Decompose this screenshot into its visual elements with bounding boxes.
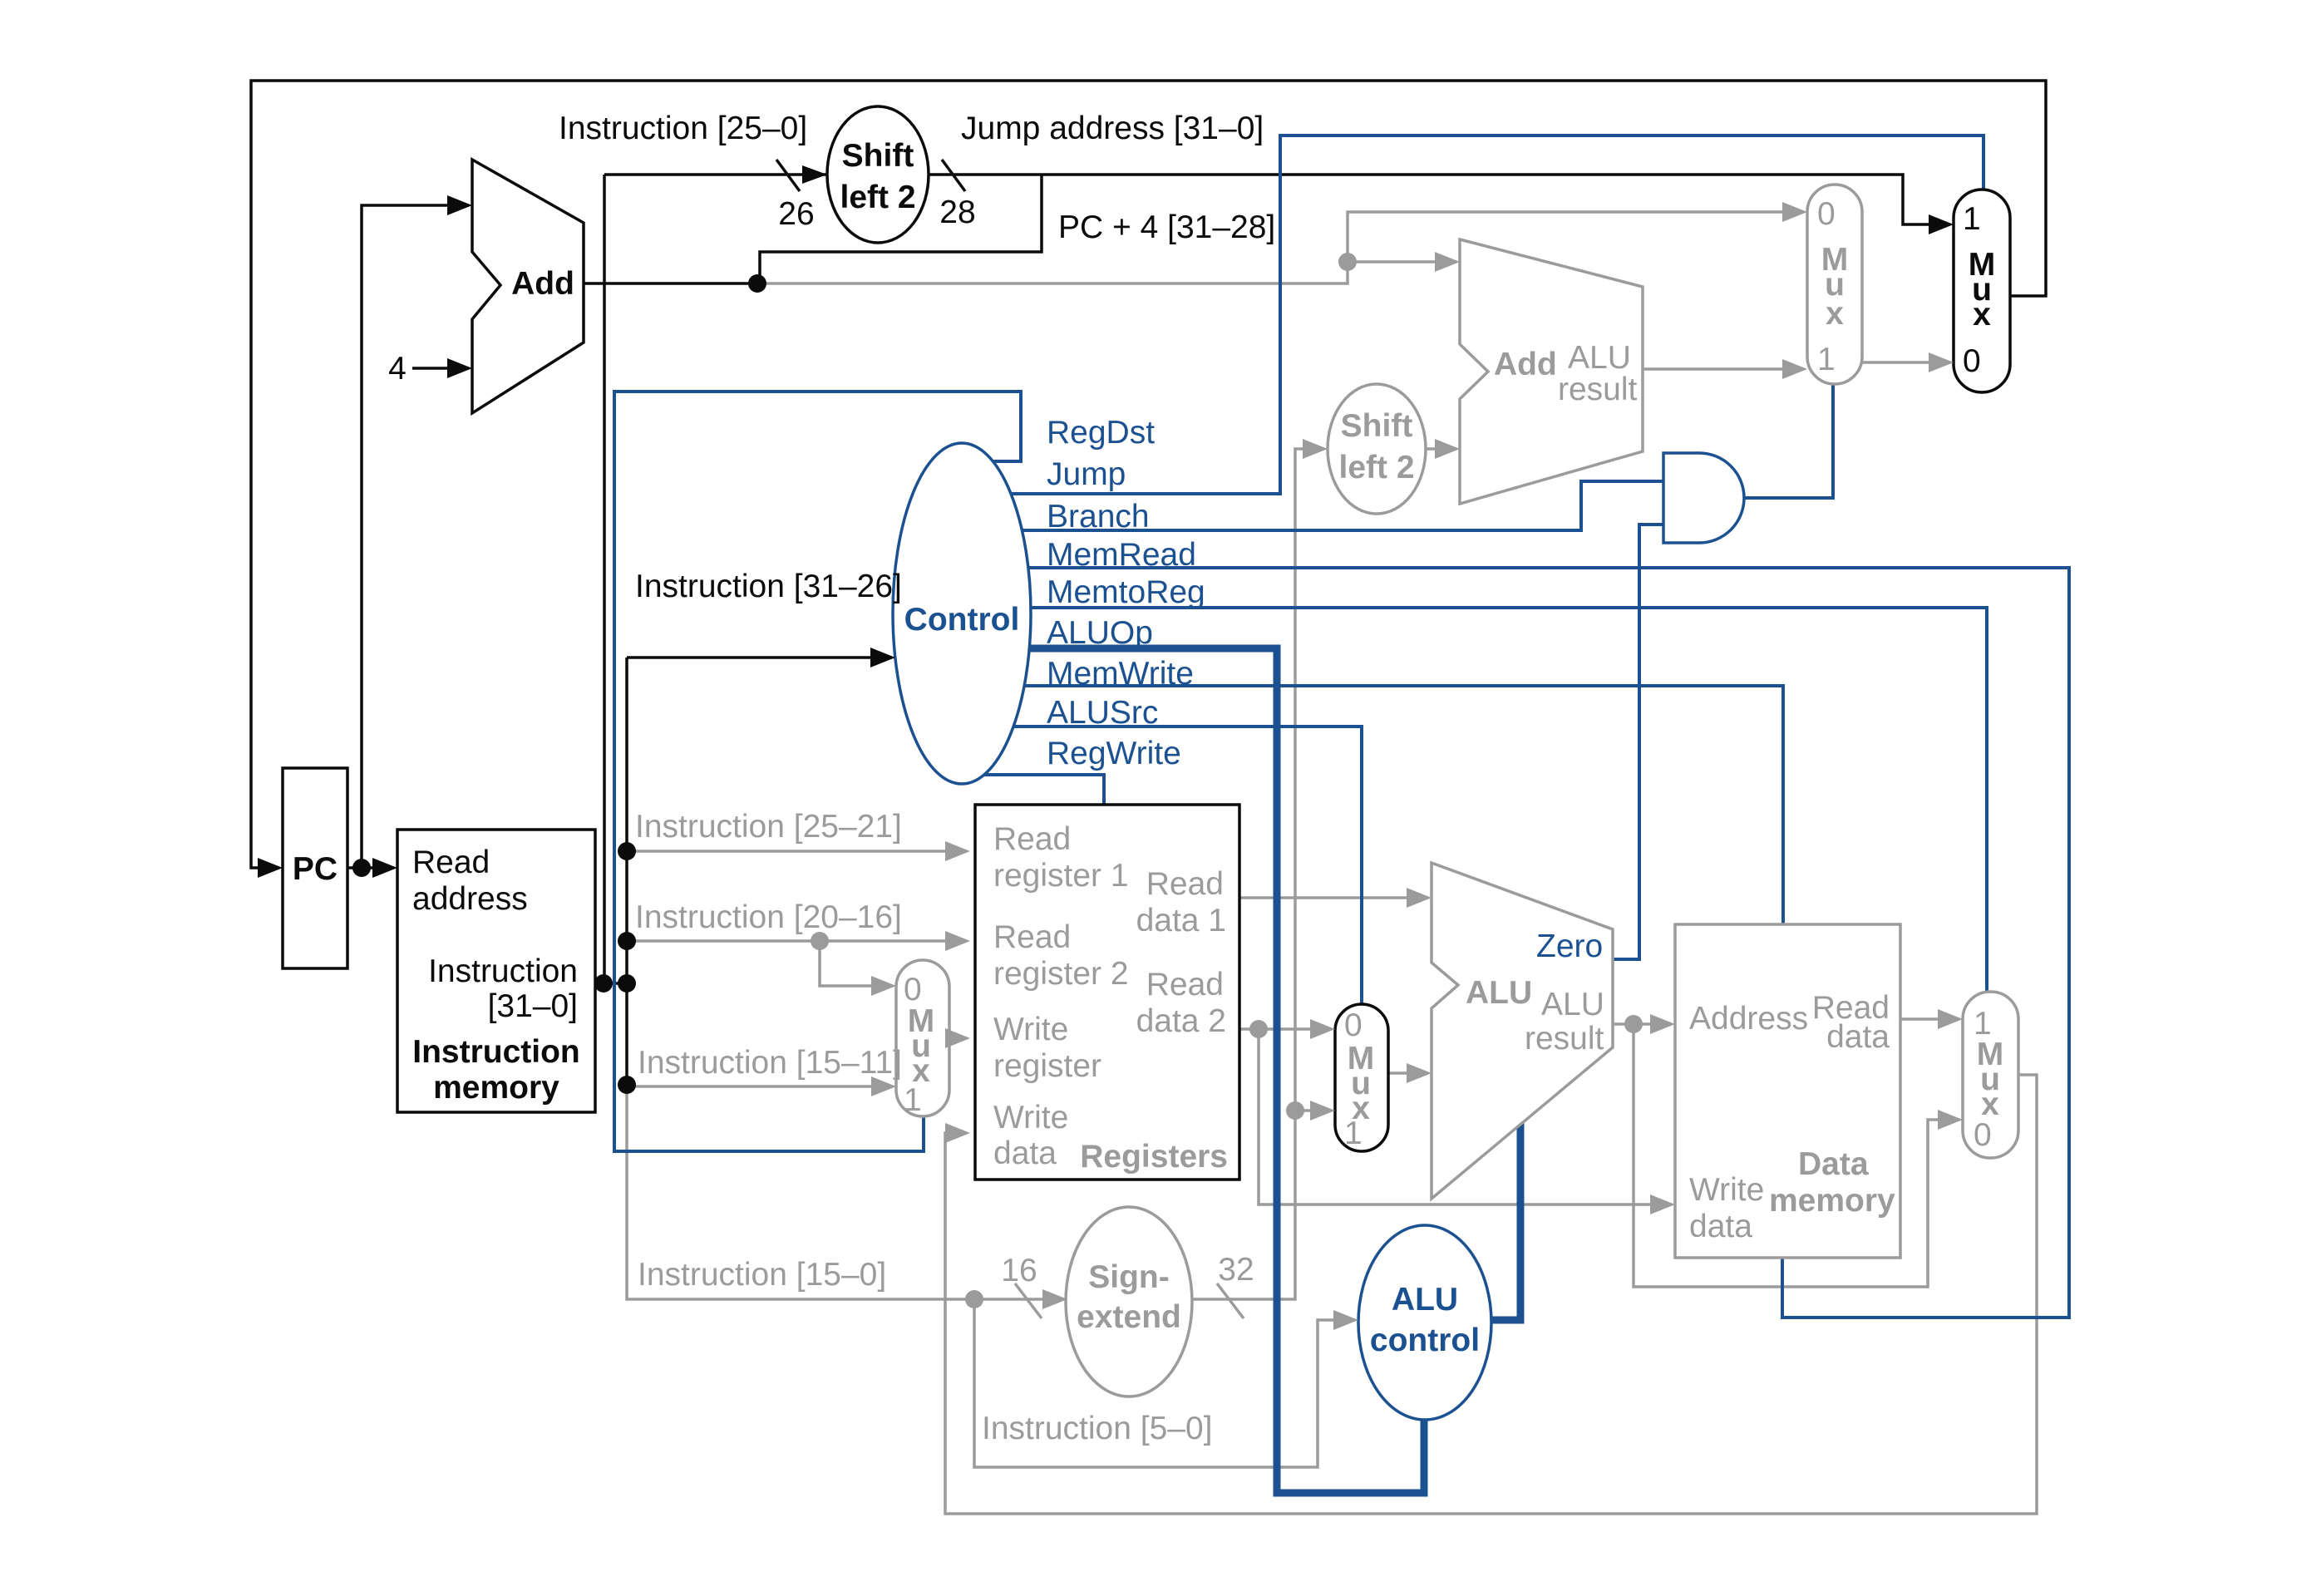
svg-text:Read: Read [1146, 866, 1224, 902]
svg-text:memory: memory [1769, 1183, 1895, 1219]
svg-text:0: 0 [1344, 1007, 1363, 1043]
svg-text:result: result [1525, 1021, 1604, 1057]
svg-text:MemRead: MemRead [1047, 537, 1196, 573]
svg-text:left 2: left 2 [840, 180, 915, 215]
svg-text:Read: Read [1146, 967, 1224, 1002]
svg-text:ALUSrc: ALUSrc [1047, 695, 1158, 731]
svg-text:Instruction [25–0]: Instruction [25–0] [559, 111, 807, 146]
svg-text:Instruction: Instruction [412, 1034, 580, 1070]
svg-text:Jump address [31–0]: Jump address [31–0] [961, 111, 1264, 146]
svg-text:Write: Write [993, 1012, 1068, 1047]
svg-text:Instruction [15–11]: Instruction [15–11] [638, 1045, 902, 1081]
svg-text:1: 1 [1817, 342, 1836, 377]
svg-text:data 1: data 1 [1136, 903, 1226, 938]
svg-text:Add: Add [1494, 347, 1557, 382]
svg-text:Instruction [5–0]: Instruction [5–0] [982, 1411, 1213, 1446]
svg-text:Jump: Jump [1047, 456, 1126, 492]
svg-text:ALU: ALU [1392, 1282, 1458, 1318]
svg-text:address: address [412, 881, 528, 917]
svg-text:x: x [1973, 297, 1991, 332]
svg-text:Shift: Shift [842, 138, 914, 174]
svg-text:result: result [1558, 372, 1638, 407]
svg-text:MemtoReg: MemtoReg [1047, 574, 1205, 610]
svg-text:x: x [1826, 296, 1844, 332]
svg-text:ALU: ALU [1466, 975, 1532, 1011]
svg-text:0: 0 [1963, 343, 1981, 379]
svg-text:Control: Control [904, 602, 1020, 638]
svg-text:Read: Read [993, 919, 1071, 955]
svg-text:memory: memory [433, 1070, 559, 1106]
svg-text:PC + 4 [31–28]: PC + 4 [31–28] [1058, 209, 1275, 245]
svg-text:extend: extend [1077, 1299, 1181, 1335]
svg-text:Sign-: Sign- [1088, 1259, 1169, 1295]
svg-text:Instruction [31–26]: Instruction [31–26] [635, 569, 902, 604]
svg-text:PC: PC [293, 851, 338, 887]
svg-text:register 2: register 2 [993, 956, 1129, 992]
svg-text:control: control [1370, 1323, 1480, 1358]
svg-text:Shift: Shift [1341, 408, 1413, 444]
svg-text:Instruction [15–0]: Instruction [15–0] [638, 1257, 886, 1293]
svg-text:Branch: Branch [1047, 499, 1150, 534]
svg-text:28: 28 [939, 195, 975, 230]
svg-text:Zero: Zero [1536, 929, 1603, 964]
svg-text:Add: Add [511, 266, 574, 302]
svg-text:4: 4 [388, 351, 407, 387]
svg-text:data 2: data 2 [1136, 1003, 1226, 1039]
svg-text:Address: Address [1689, 1001, 1808, 1037]
svg-text:1: 1 [1344, 1116, 1363, 1151]
svg-text:0: 0 [1817, 196, 1836, 232]
svg-text:1: 1 [1963, 201, 1981, 237]
svg-text:data: data [1689, 1209, 1752, 1244]
svg-text:ALU: ALU [1541, 987, 1604, 1022]
svg-text:register: register [993, 1048, 1101, 1084]
svg-text:0: 0 [1974, 1117, 1992, 1153]
svg-text:RegDst: RegDst [1047, 415, 1155, 451]
svg-text:26: 26 [778, 196, 814, 232]
svg-text:[31–0]: [31–0] [488, 988, 578, 1024]
svg-text:Read: Read [993, 821, 1071, 857]
svg-text:MemWrite: MemWrite [1047, 656, 1194, 692]
svg-text:Instruction [20–16]: Instruction [20–16] [635, 899, 902, 935]
svg-text:Data: Data [1798, 1146, 1869, 1182]
svg-text:Instruction: Instruction [428, 953, 578, 989]
svg-text:16: 16 [1001, 1253, 1037, 1288]
svg-text:data: data [993, 1135, 1057, 1171]
svg-text:left 2: left 2 [1338, 450, 1414, 485]
svg-text:Write: Write [1689, 1172, 1764, 1208]
svg-text:0: 0 [904, 972, 922, 1007]
svg-text:Instruction [25–21]: Instruction [25–21] [635, 809, 902, 845]
svg-text:ALUOp: ALUOp [1047, 615, 1153, 651]
svg-text:register 1: register 1 [993, 858, 1129, 894]
svg-text:1: 1 [904, 1082, 922, 1118]
svg-text:ALU: ALU [1568, 340, 1631, 376]
svg-text:Registers: Registers [1080, 1139, 1228, 1175]
svg-text:RegWrite: RegWrite [1047, 736, 1181, 771]
svg-text:Write: Write [993, 1100, 1068, 1135]
svg-text:data: data [1826, 1019, 1890, 1055]
svg-text:Read: Read [412, 845, 490, 880]
svg-text:32: 32 [1218, 1252, 1254, 1288]
